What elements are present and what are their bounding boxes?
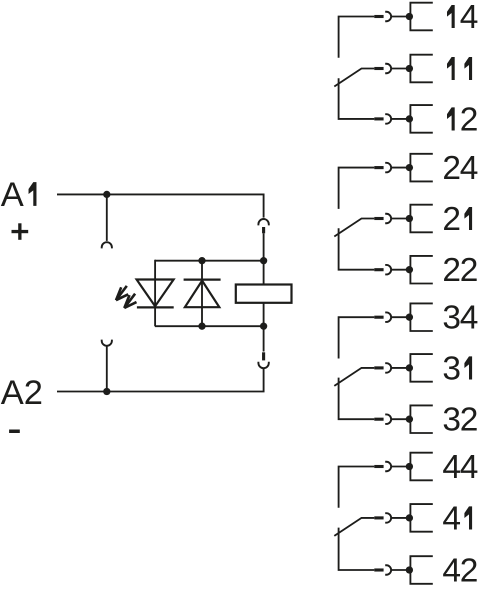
changeover switch blade K1.2 (common 21) bbox=[334, 219, 374, 237]
LED triangle (cathode down) bbox=[137, 280, 174, 307]
polarity - sign bbox=[9, 430, 20, 434]
svg-text:2: 2 bbox=[442, 252, 461, 289]
connector pin (contact 24) bbox=[374, 166, 383, 169]
terminal label 11 bbox=[447, 57, 455, 80]
wire socket to terminal 31 bbox=[391, 367, 409, 369]
svg-text:4: 4 bbox=[442, 553, 461, 590]
wire socket to terminal 42 bbox=[391, 569, 409, 571]
junction node terminal 21 bbox=[406, 215, 413, 222]
svg-text:3: 3 bbox=[442, 300, 461, 337]
connector socket (contact 21, opening left) bbox=[385, 214, 391, 224]
junction node terminal 42 bbox=[406, 566, 413, 573]
svg-text:4: 4 bbox=[442, 500, 461, 537]
wire socket to terminal 14 bbox=[391, 16, 409, 18]
connector socket (coil upper, opening down) bbox=[258, 219, 268, 225]
wire A1 horizontal with corner down to coil connector bbox=[57, 194, 264, 217]
terminal clamp 31 bbox=[410, 354, 432, 382]
wire coil branch upper bbox=[263, 261, 265, 285]
wire socket to terminal 22 bbox=[391, 269, 409, 271]
svg-text:2: 2 bbox=[460, 101, 479, 138]
junction node terminal 22 bbox=[406, 266, 413, 273]
wire rail to NC contact 12 (group 1) bbox=[339, 78, 375, 119]
connector socket (left upper, opening down) bbox=[102, 242, 112, 248]
connector socket (contact 22, opening left) bbox=[385, 265, 391, 275]
connector pin (contact 42) bbox=[374, 568, 383, 571]
svg-text:3: 3 bbox=[442, 350, 461, 387]
terminal clamp 42 bbox=[410, 556, 432, 584]
junction node terminal 24 bbox=[406, 164, 413, 171]
changeover switch blade K1.4 (common 41) bbox=[334, 518, 374, 536]
svg-text:2: 2 bbox=[460, 553, 479, 590]
wire socket to terminal 41 bbox=[391, 517, 409, 519]
terminal clamp 14 bbox=[410, 3, 432, 31]
svg-text:4: 4 bbox=[460, 449, 479, 486]
connector socket (left lower, opening up) bbox=[102, 340, 112, 346]
svg-text:2: 2 bbox=[442, 150, 461, 187]
junction bottom of diode branch bbox=[198, 323, 205, 330]
connector socket (contact 14, opening left) bbox=[385, 12, 391, 22]
terminal clamp 41 bbox=[410, 504, 432, 532]
connector pin (contact 44) bbox=[374, 465, 383, 468]
terminal label 14 bbox=[447, 5, 455, 28]
junction node on A1 wire bbox=[103, 191, 110, 198]
junction node terminal 11 bbox=[406, 65, 413, 72]
wire socket to terminal 24 bbox=[391, 167, 409, 169]
connector pin (contact 21) bbox=[374, 217, 383, 220]
svg-text:2: 2 bbox=[442, 201, 461, 238]
junction node on A2 wire bbox=[103, 388, 110, 395]
svg-text:A2: A2 bbox=[1, 374, 43, 412]
connector socket (contact 32, opening left) bbox=[385, 414, 391, 424]
wire LED branch vertical bbox=[154, 260, 156, 326]
connector socket (contact 42, opening left) bbox=[385, 565, 391, 575]
svg-text:4: 4 bbox=[442, 449, 461, 486]
wire socket to terminal 12 bbox=[391, 118, 409, 120]
terminal clamp 21 bbox=[410, 205, 432, 233]
junction node terminal 14 bbox=[406, 13, 413, 20]
connector pin (contact 14) bbox=[374, 15, 383, 18]
connector pin (contact 31) bbox=[374, 366, 383, 369]
changeover switch blade K1.1 (common 11) bbox=[334, 69, 374, 87]
svg-text:A: A bbox=[1, 176, 24, 214]
terminal clamp 34 bbox=[410, 303, 432, 331]
freewheeling diode cathode bar bbox=[184, 279, 221, 281]
wire box top rail bbox=[155, 260, 264, 262]
wire from coil lower socket with corner to A2 bbox=[57, 368, 264, 391]
LED light emission arrow 2 bbox=[124, 294, 135, 308]
terminal clamp 32 bbox=[410, 405, 432, 433]
junction node terminal 44 bbox=[406, 463, 413, 470]
wire socket to terminal 34 bbox=[391, 316, 409, 318]
wire NO contact 14 with rail down (group 1) bbox=[339, 17, 375, 58]
connector socket (contact 24, opening left) bbox=[385, 163, 391, 173]
connector socket (coil lower, opening up) bbox=[258, 362, 268, 368]
wire socket to terminal 44 bbox=[391, 466, 409, 468]
junction node terminal 34 bbox=[406, 314, 413, 321]
connector pin (contact 32) bbox=[374, 418, 383, 421]
junction bottom of coil branch bbox=[260, 323, 267, 330]
terminal clamp 12 bbox=[410, 105, 432, 133]
svg-text:4: 4 bbox=[460, 150, 479, 187]
connector socket (contact 41, opening left) bbox=[385, 513, 391, 523]
svg-text:2: 2 bbox=[460, 402, 479, 439]
junction node terminal 41 bbox=[406, 514, 413, 521]
relay coil K1 bbox=[236, 285, 292, 303]
svg-text:4: 4 bbox=[460, 300, 479, 337]
terminal clamp 24 bbox=[410, 154, 432, 182]
svg-text:2: 2 bbox=[460, 252, 479, 289]
connector pin (contact 11) bbox=[374, 67, 383, 70]
connector socket (contact 34, opening left) bbox=[385, 312, 391, 322]
junction node terminal 12 bbox=[406, 115, 413, 122]
changeover switch blade K1.3 (common 31) bbox=[334, 368, 374, 386]
connector socket (contact 12, opening left) bbox=[385, 114, 391, 124]
wire rail to NC contact 32 (group 3) bbox=[339, 378, 375, 420]
terminal clamp 22 bbox=[410, 256, 432, 284]
junction top of coil branch bbox=[260, 257, 267, 264]
connector socket (contact 44, opening left) bbox=[385, 462, 391, 472]
junction node terminal 32 bbox=[406, 416, 413, 423]
terminal clamp 11 bbox=[410, 55, 432, 83]
wire NO contact 34 with rail down (group 3) bbox=[339, 317, 375, 358]
wire diode branch vertical bbox=[201, 261, 203, 327]
wire NO contact 44 with rail down (group 4) bbox=[339, 467, 375, 508]
wire rail to NC contact 22 (group 2) bbox=[339, 228, 375, 270]
wire socket to terminal 11 bbox=[391, 68, 409, 70]
junction top of diode branch bbox=[198, 257, 205, 264]
wire socket to terminal 21 bbox=[391, 218, 409, 220]
freewheeling diode triangle (pointing up) bbox=[185, 281, 219, 308]
svg-text:3: 3 bbox=[442, 402, 461, 439]
connector socket (contact 31, opening left) bbox=[385, 363, 391, 373]
connector pin (contact 12) bbox=[374, 117, 383, 120]
wire from left lower socket down to A2 junction bbox=[106, 346, 108, 392]
wire socket to terminal 32 bbox=[391, 418, 409, 420]
svg-text:4: 4 bbox=[460, 0, 479, 36]
wire from box bottom down to coil lower pin bbox=[263, 326, 265, 351]
wire coil branch lower bbox=[263, 303, 265, 326]
connector pin (coil upper) bbox=[262, 227, 265, 233]
connector pin (coil lower) bbox=[262, 352, 265, 360]
connector pin (contact 41) bbox=[374, 516, 383, 519]
wire NO contact 24 with rail down (group 2) bbox=[339, 168, 375, 209]
wire from coil upper pin to box top bbox=[263, 233, 265, 260]
connector socket (contact 11, opening left) bbox=[385, 64, 391, 74]
connector pin (contact 22) bbox=[374, 268, 383, 271]
terminal clamp 44 bbox=[410, 453, 432, 481]
LED light emission arrow 1 bbox=[116, 286, 127, 300]
wire rail to NC contact 42 (group 4) bbox=[339, 528, 375, 570]
polarity + sign bbox=[12, 230, 29, 233]
connector pin (contact 34) bbox=[374, 316, 383, 319]
junction node terminal 31 bbox=[406, 364, 413, 371]
wire box bottom rail bbox=[155, 325, 264, 327]
LED cathode bar bbox=[137, 306, 174, 308]
wire stub from A1 junction down to left socket bbox=[106, 194, 108, 241]
terminal label 12 bbox=[447, 107, 455, 130]
